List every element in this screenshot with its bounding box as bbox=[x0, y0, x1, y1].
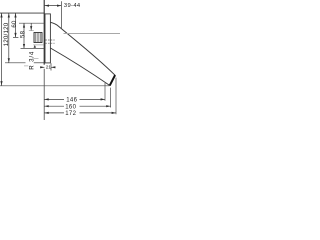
dim 120/120 vertical line bbox=[8, 13, 10, 63]
spout-top reference line bbox=[19, 22, 44, 24]
background bbox=[0, 0, 120, 120]
svg-text:39-44: 39-44 bbox=[64, 3, 81, 9]
svg-text:58: 58 bbox=[21, 30, 27, 38]
dim 146 bbox=[44, 98, 64, 100]
right extension line 146 bbox=[104, 83, 106, 101]
svg-text:172: 172 bbox=[65, 111, 76, 117]
dim 21 bbox=[50, 63, 52, 70]
svg-text:160: 160 bbox=[65, 104, 76, 110]
dim 60 tick bbox=[13, 36, 18, 38]
spout-bottom reference line bbox=[21, 47, 45, 49]
hidden waterway dashes bbox=[45, 40, 54, 43]
wire: top reference line bbox=[0, 12, 45, 14]
dim 160 bbox=[44, 105, 64, 107]
supply pipe centerline bbox=[5, 62, 26, 64]
concealed body (hatched block) bbox=[34, 33, 42, 43]
mini dim arrow (pipe dia) bbox=[30, 23, 32, 30]
wall extension line lower bbox=[43, 69, 45, 120]
right extension line 160 bbox=[110, 88, 112, 108]
gray reference line right bbox=[64, 33, 121, 35]
dim 60 vertical line bbox=[15, 13, 17, 37]
svg-text:60: 60 bbox=[12, 20, 18, 28]
spout end face bbox=[110, 75, 115, 86]
spout tip level reference line bbox=[0, 85, 110, 87]
dim 172 bbox=[44, 112, 64, 114]
pipe wall marks bbox=[33, 58, 38, 60]
svg-text:146: 146 bbox=[66, 98, 77, 104]
dim 39-44 arrows bbox=[45, 5, 62, 7]
right extension line 172 bbox=[115, 78, 117, 115]
svg-text:R 3/4: R 3/4 bbox=[28, 51, 35, 70]
wall line bbox=[43, 0, 45, 65]
connector line below body bbox=[33, 44, 43, 46]
svg-text:120/120: 120/120 bbox=[3, 22, 10, 46]
svg-text:21: 21 bbox=[46, 65, 52, 71]
small up arrow below body bbox=[34, 45, 37, 48]
spout bottom edge bbox=[50, 48, 109, 85]
plate (escutcheon side view) bbox=[45, 14, 50, 63]
dim 58 vertical line bbox=[23, 23, 25, 48]
dim 39-44 line bbox=[45, 1, 62, 28]
dim A vertical line (cropped label) bbox=[1, 13, 3, 85]
spout top edge bbox=[51, 22, 115, 75]
